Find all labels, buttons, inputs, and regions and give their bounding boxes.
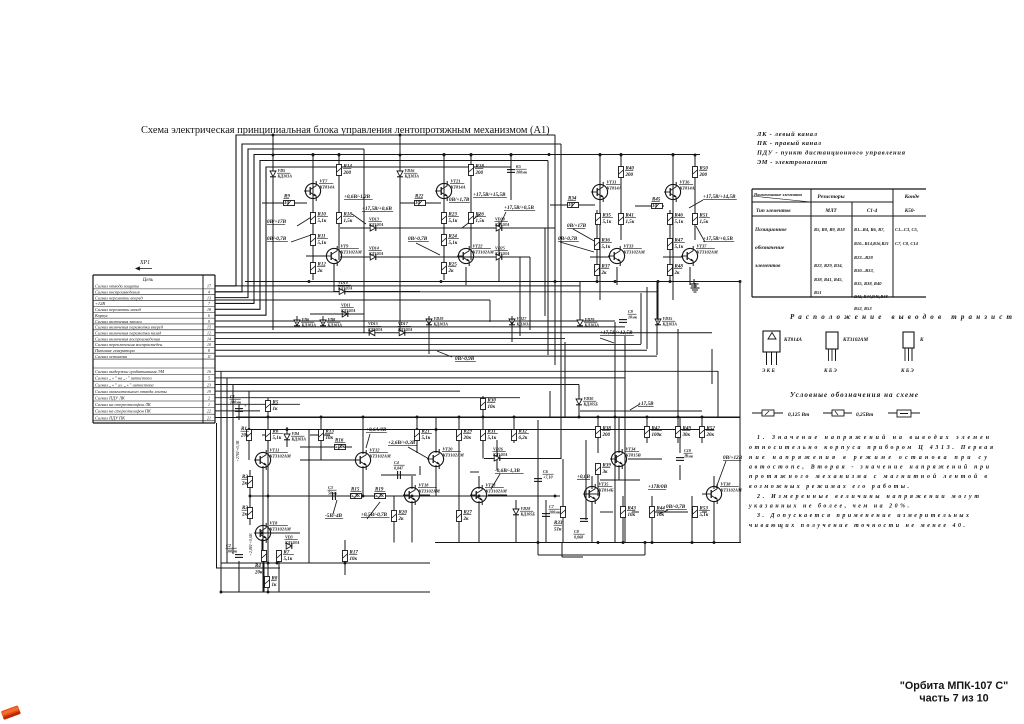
svg-text:КТ814А: КТ814А: [450, 184, 466, 189]
resistor R19: [375, 494, 386, 499]
resistor R21: [415, 430, 420, 441]
node: [362, 495, 365, 498]
node: [267, 416, 270, 419]
wire: [597, 463, 599, 496]
wire: [338, 212, 340, 260]
svg-text:2к: 2к: [448, 269, 455, 274]
svg-text:Сигнал ПДУ ПК: Сигнал ПДУ ПК: [95, 415, 126, 420]
node 0В/+1,7В: [449, 197, 470, 203]
wire leader: [297, 216, 313, 226]
svg-text:ПДУ - пункт дистанционного упр: ПДУ - пункт дистанционного управления: [756, 150, 906, 157]
diode VD10: [339, 289, 345, 295]
wire leader: [437, 351, 452, 357]
svg-text:C2: C2: [226, 543, 231, 548]
svg-text:21: 21: [207, 416, 211, 420]
resistor R35: [596, 214, 601, 225]
svg-text:100к: 100к: [652, 433, 663, 438]
capacitor C6: [534, 479, 542, 482]
wire: [597, 417, 599, 453]
svg-text:5,1к: 5,1к: [449, 241, 458, 246]
resistor R22: [415, 201, 426, 206]
capacitor C1: [235, 405, 247, 412]
svg-text:R30...R33,: R30...R33,: [854, 268, 874, 273]
resistor R3: [248, 508, 253, 519]
wire: [599, 182, 601, 300]
wire: [338, 164, 340, 212]
svg-text:VT9: VT9: [341, 244, 350, 249]
svg-text:Наименование элементов: Наименование элементов: [753, 192, 802, 197]
node 0В/-0,9В: [455, 356, 476, 362]
svg-text:1,5к: 1,5к: [700, 220, 709, 225]
svg-text:+: +: [244, 405, 247, 410]
wire leader: [367, 502, 380, 519]
wire: [419, 466, 421, 475]
wire: [248, 391, 250, 460]
svg-text:КД103А: КД103А: [492, 452, 508, 457]
wire: [510, 155, 512, 169]
wire: [537, 420, 539, 543]
wire: [383, 495, 406, 497]
wire: [458, 417, 460, 543]
resistor R30: [481, 399, 486, 410]
connector row: Сигнал воспроизведения: [93, 290, 215, 295]
wire: [270, 495, 355, 497]
svg-text:КТ814Б: КТ814Б: [598, 487, 614, 492]
wire: [702, 493, 707, 495]
node: [739, 280, 742, 283]
svg-text:VD13: VD13: [369, 217, 379, 222]
node +17,5В/+15,5В: [473, 192, 507, 198]
svg-text:C9: C9: [628, 309, 633, 314]
svg-text:4: 4: [208, 291, 210, 295]
node +17,5В/+0,6В: [362, 206, 393, 212]
note 1: [749, 434, 993, 490]
transistor VT12: [354, 450, 371, 470]
svg-text:КТ3102АМ: КТ3102АМ: [369, 453, 392, 458]
node: [677, 416, 680, 419]
resistor R44: [650, 507, 655, 518]
capacitor C2: [235, 555, 243, 558]
wire: [322, 316, 324, 323]
wire: [267, 398, 269, 592]
wire: [578, 385, 580, 418]
capacitor C8: [580, 519, 588, 522]
node: [513, 416, 516, 419]
node: [537, 541, 540, 544]
svg-text:100мк: 100мк: [226, 549, 238, 554]
node: [362, 416, 365, 419]
node 0В/+17В: [567, 223, 587, 229]
svg-text:5,1к: 5,1к: [449, 219, 458, 224]
wire: [513, 417, 515, 443]
wire: [249, 470, 251, 525]
svg-text:200: 200: [625, 173, 634, 178]
svg-text:16: 16: [207, 370, 211, 374]
wire: [340, 227, 545, 229]
svg-text:КД103А: КД103А: [368, 251, 384, 256]
diode VD30: [576, 399, 582, 405]
wire: [482, 443, 484, 459]
svg-text:VT7: VT7: [320, 179, 329, 184]
wire bus: [215, 410, 260, 412]
svg-text:Э К Б: Э К Б: [762, 368, 775, 374]
wire: [262, 202, 307, 204]
wire bus: [215, 338, 565, 340]
svg-text:Условные обозначения на схе: Условные обозначения на схеме: [790, 391, 918, 399]
svg-text:10мк: 10мк: [628, 315, 638, 320]
connector row: Сигнал включения записи: [93, 319, 215, 324]
svg-text:20к: 20к: [706, 433, 715, 438]
svg-text:VT38: VT38: [721, 482, 732, 487]
svg-text:КД103А: КД103А: [662, 322, 678, 327]
wire: [701, 417, 703, 443]
svg-text:5,1к: 5,1к: [318, 219, 327, 224]
svg-text:10к: 10к: [657, 513, 665, 518]
node: [276, 562, 279, 565]
wire: [338, 155, 340, 165]
node: [620, 153, 623, 156]
transistor VT38: [705, 484, 722, 504]
node: [272, 134, 275, 137]
wire: [362, 417, 364, 454]
svg-text:Позиционное: Позиционное: [754, 227, 787, 233]
wire bus: [215, 144, 561, 292]
wire: [545, 500, 547, 543]
wire: [713, 501, 715, 543]
svg-text:КТ3102АМ: КТ3102АМ: [696, 249, 719, 254]
node: [510, 153, 513, 156]
connector row: Сигнал ПДУ ПК: [93, 415, 215, 420]
transistor VT20: [427, 449, 444, 469]
svg-text:Сигнал окончательного отвода л: Сигнал окончательного отвода ленты: [95, 389, 167, 394]
wire rail: [221, 591, 430, 593]
svg-text:VT20: VT20: [443, 447, 454, 452]
svg-text:Сигнал включения перемотки впе: Сигнал включения перемотки вперед: [95, 325, 164, 330]
svg-text:10: 10: [284, 201, 290, 206]
svg-text:Схема электрическая принципиал: Схема электрическая принципиальная блока…: [141, 125, 550, 136]
svg-text:VD26: VD26: [493, 447, 504, 452]
wire: [232, 385, 234, 555]
wire: [544, 228, 546, 316]
svg-text:КД105Б: КД105Б: [520, 512, 536, 517]
svg-text:VT34: VT34: [626, 447, 637, 452]
wire: [334, 291, 420, 293]
connector row: Сигнал останова: [93, 354, 215, 359]
wire: [628, 458, 662, 460]
resistor R27: [457, 511, 462, 522]
svg-text:23: 23: [207, 383, 211, 387]
wire: [616, 267, 618, 285]
svg-text:КД103А: КД103А: [494, 251, 510, 256]
svg-text:3к: 3к: [602, 470, 609, 475]
diode VD16: [397, 171, 403, 177]
wire: [262, 466, 264, 592]
diode VD3: [286, 543, 292, 549]
connector row: Сигнал перемотки вперед: [93, 295, 215, 300]
svg-text:2к: 2к: [398, 517, 405, 522]
svg-text:11: 11: [207, 355, 211, 359]
svg-text:5: 5: [208, 377, 210, 381]
wire: [400, 202, 441, 204]
wire leader: [600, 338, 614, 343]
wire: [470, 155, 472, 165]
svg-text:КТ3102АМ: КТ3102АМ: [269, 526, 292, 531]
diode VD15: [369, 330, 375, 336]
resistor R40: [619, 167, 624, 178]
svg-text:15: 15: [207, 326, 211, 330]
connector table XP1: [93, 275, 215, 423]
capacitor C7: [542, 514, 550, 517]
transistor VT21: [435, 181, 452, 201]
svg-text:1к: 1к: [273, 407, 279, 412]
wire: [220, 371, 222, 592]
svg-text:Сигнал ПДУ ЛК: Сигнал ПДУ ЛК: [95, 396, 126, 401]
transistor VT22: [457, 246, 474, 266]
svg-text:VD14: VD14: [369, 246, 379, 251]
svg-text:Цепь: Цепь: [142, 278, 154, 283]
svg-text:1: 1: [208, 403, 210, 407]
node: [478, 495, 481, 498]
transistor VT37: [681, 246, 698, 266]
node: [261, 532, 264, 535]
svg-text:3. Допускается применение из: 3. Допускается применение измерительных: [756, 513, 969, 519]
node: [312, 153, 315, 156]
resistor R51: [693, 214, 698, 225]
svg-text:КТ3102АМ: КТ3102АМ: [472, 249, 495, 254]
wire: [254, 459, 256, 461]
wire bus: [215, 384, 579, 386]
svg-text:МЛТ: МЛТ: [824, 208, 837, 214]
note 3: [749, 513, 969, 529]
resistor R17: [343, 551, 348, 562]
node +0,6В: [577, 474, 590, 480]
svg-text:R42, R44,R46,R48: R42, R44,R46,R48: [854, 294, 888, 299]
svg-text:Тип элементов: Тип элементов: [756, 208, 791, 214]
wire leader: [696, 226, 705, 242]
svg-text:ЭМ - электромагнит: ЭМ - электромагнит: [757, 159, 827, 166]
svg-text:0,068: 0,068: [574, 535, 583, 540]
svg-text:КД103А: КД103А: [433, 322, 449, 327]
svg-text:Сигнал на стереотелефон ПК: Сигнал на стереотелефон ПК: [95, 409, 152, 414]
connector row: Сигнал переключения воспроизведен.: [93, 342, 215, 347]
node: [622, 541, 625, 544]
svg-text:19: 19: [207, 390, 211, 394]
wire: [435, 465, 437, 496]
resistor R8: [265, 577, 270, 588]
wire: [529, 257, 531, 330]
wire leader: [416, 243, 440, 255]
node: [470, 153, 473, 156]
svg-text:VT21: VT21: [451, 179, 461, 184]
transistor VT7: [304, 181, 321, 201]
svg-text:VD28: VD28: [521, 506, 531, 511]
wire: [255, 532, 300, 534]
node +17В/0В: [648, 484, 668, 490]
svg-text:C3: C3: [328, 485, 333, 490]
wire: [537, 543, 539, 556]
wire: [656, 282, 658, 356]
connector row: Сигнал ПДУ ЛК: [93, 396, 215, 401]
wire: [482, 396, 484, 443]
node +17,5В/+12,5В: [600, 330, 634, 336]
diode VD4: [284, 434, 290, 440]
svg-text:R52, R53: R52, R53: [854, 306, 872, 311]
wire bus: [215, 332, 712, 334]
svg-text:VD29: VD29: [585, 317, 595, 322]
resistor R49: [676, 427, 681, 438]
node: [267, 495, 270, 498]
svg-text:КД103А: КД103А: [404, 174, 420, 179]
wire: [435, 417, 437, 453]
wire: [591, 501, 593, 543]
svg-text:R51: R51: [814, 290, 822, 295]
node: [435, 428, 438, 431]
transistor package КТ3102АМ: [823, 332, 869, 374]
diode VD8: [320, 320, 326, 326]
wire: [363, 149, 365, 228]
svg-text:100мк: 100мк: [516, 170, 528, 175]
wire: [306, 255, 327, 257]
wire bus: [215, 320, 615, 322]
svg-text:1,5к: 1,5к: [626, 220, 635, 225]
wire: [618, 417, 620, 453]
wire: [622, 496, 624, 543]
resistor R5: [266, 401, 271, 412]
node: [578, 416, 581, 419]
wire: [646, 287, 648, 349]
wire: [679, 465, 681, 480]
resistor R34: [568, 203, 579, 208]
wire rail: [435, 542, 741, 544]
svg-text:10: 10: [568, 203, 574, 208]
svg-text:VT12: VT12: [370, 448, 381, 453]
node: [597, 416, 600, 419]
node -5В/-4В: [325, 513, 343, 519]
symbol resistor 0.125W: [752, 410, 809, 418]
connector row: Сигнал „+” эл. „+” автостопа: [93, 382, 215, 388]
wire bus: [215, 326, 625, 328]
wire leader: [491, 474, 500, 489]
node: [554, 495, 557, 498]
svg-text:КД103А: КД103А: [301, 323, 317, 328]
node: [344, 562, 347, 565]
wire: [644, 543, 646, 556]
wire: [560, 144, 562, 459]
svg-text:Расположение выводов транзис: Расположение выводов транзист: [790, 313, 1013, 321]
diode VD5: [270, 171, 276, 177]
svg-text:К Б Э: К Б Э: [900, 368, 914, 374]
transistor VT9: [325, 246, 342, 266]
svg-text:КТ3102АМ: КТ3102АМ: [623, 249, 646, 254]
diode VD6: [294, 320, 300, 326]
svg-text:VT22: VT22: [473, 244, 484, 249]
svg-text:22: 22: [207, 410, 211, 414]
wire: [443, 181, 445, 280]
svg-text:2к: 2к: [241, 513, 248, 518]
node: [672, 153, 675, 156]
svg-text:12: 12: [207, 331, 211, 335]
wire bus: [215, 155, 700, 304]
node: [249, 495, 252, 498]
resistor R33: [561, 507, 566, 518]
wire: [312, 181, 314, 280]
node: [399, 134, 402, 137]
wire: [484, 458, 561, 460]
wire: [677, 329, 679, 417]
wire: [465, 267, 467, 285]
wire: [547, 161, 549, 356]
wire: [689, 267, 691, 285]
svg-text:КД105Б: КД105Б: [583, 402, 599, 407]
wire: [215, 299, 490, 301]
wire leader: [573, 229, 596, 242]
svg-text:5,1к: 5,1к: [318, 241, 327, 246]
node: [267, 591, 270, 594]
svg-text:10к: 10к: [628, 513, 636, 518]
svg-text:2к: 2к: [674, 271, 681, 276]
capacitor C9: [619, 320, 627, 323]
svg-text:VT35: VT35: [599, 482, 610, 487]
node: [267, 562, 270, 565]
table: component types: [752, 189, 926, 311]
wire bus: [215, 417, 740, 419]
svg-text:VD3: VD3: [285, 535, 293, 540]
wire rail: [250, 495, 560, 497]
wire: [340, 256, 520, 258]
transistor package КТ814А: [762, 331, 802, 374]
svg-text:2к: 2к: [241, 482, 248, 487]
transistor VT8: [254, 523, 271, 543]
node: [614, 416, 617, 419]
node: [338, 153, 341, 156]
svg-text:14: 14: [207, 337, 211, 341]
resistor R39: [596, 464, 601, 475]
svg-text:20к: 20к: [463, 436, 472, 441]
wire: [416, 417, 418, 453]
svg-text:ХР1: ХР1: [139, 260, 150, 266]
wire: [393, 496, 395, 543]
wire: [470, 164, 472, 212]
wire: [217, 423, 281, 568]
connector row: Сигнал „+” на „-” автостопа: [93, 376, 215, 382]
wire: [286, 427, 288, 447]
svg-text:VD16: VD16: [405, 168, 416, 173]
wire rail: [221, 562, 430, 564]
wire: [600, 479, 640, 481]
symbol resistor other: [888, 410, 920, 417]
wire: [254, 459, 259, 461]
svg-text:C10: C10: [684, 448, 691, 453]
wire: [498, 222, 500, 282]
svg-text:VD11: VD11: [341, 303, 351, 308]
wire: [263, 561, 265, 592]
transistor VT18: [403, 485, 420, 505]
svg-text:200: 200: [602, 433, 611, 438]
wire: [694, 155, 696, 167]
diode VD19: [426, 319, 432, 325]
wire: [411, 501, 413, 543]
wire rail: [580, 410, 702, 412]
wire: [600, 511, 613, 513]
svg-text:Конде: Конде: [904, 193, 920, 200]
wire: [663, 256, 683, 258]
wire rail: [300, 459, 360, 461]
node: [657, 280, 660, 283]
svg-text:20к: 20к: [254, 571, 263, 576]
svg-text:10к: 10к: [350, 557, 358, 562]
svg-text:К Б Э: К Б Э: [823, 368, 837, 374]
svg-text:Сигнал включения записи: Сигнал включения записи: [95, 319, 143, 324]
